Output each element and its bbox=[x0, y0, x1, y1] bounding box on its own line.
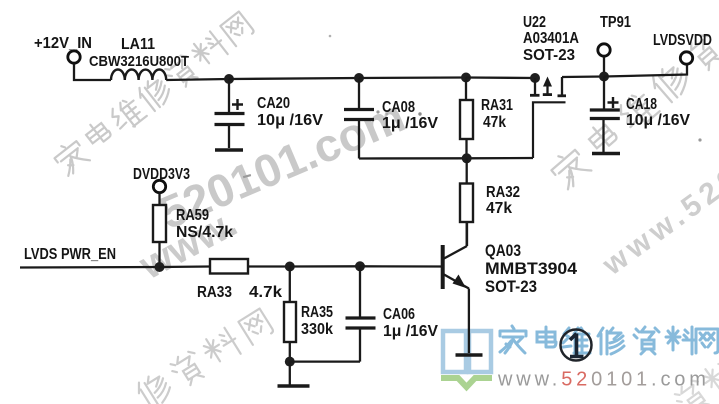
node I junction bbox=[285, 357, 295, 367]
svg-text:4.7k: 4.7k bbox=[249, 284, 282, 301]
node F junction bbox=[155, 262, 165, 272]
wire RA33 to node G bbox=[248, 265, 290, 267]
svg-text:RA35: RA35 bbox=[301, 304, 333, 321]
node B junction bbox=[354, 73, 364, 83]
ground for RA35 bbox=[278, 362, 310, 386]
node D junction bbox=[599, 72, 609, 82]
capacitor CA18 bbox=[590, 77, 691, 153]
capacitor CA20 bbox=[215, 79, 324, 148]
node DVDD3V3 terminal bbox=[133, 166, 190, 193]
svg-text:330k: 330k bbox=[301, 321, 333, 338]
ground for CA18 bbox=[592, 152, 620, 156]
scan specks bbox=[243, 35, 702, 178]
wire U22 drain to node D bbox=[562, 75, 604, 78]
svg-text:47k: 47k bbox=[483, 114, 506, 131]
svg-text:RA59: RA59 bbox=[176, 207, 209, 224]
resistor RA33 bbox=[197, 259, 282, 301]
wire node B to node C bbox=[359, 76, 466, 79]
wire QA03 emitter bbox=[468, 289, 470, 354]
svg-text:SOT-23: SOT-23 bbox=[523, 47, 575, 64]
svg-text:CBW3216U800T: CBW3216U800T bbox=[89, 53, 189, 70]
svg-text:SOT-23: SOT-23 bbox=[485, 277, 537, 296]
svg-text:RA32: RA32 bbox=[486, 184, 520, 201]
svg-text:RA33: RA33 bbox=[197, 284, 232, 301]
wire node G to node H bbox=[290, 265, 360, 268]
svg-text:LVDS PWR_EN: LVDS PWR_EN bbox=[24, 246, 116, 263]
svg-text:47k: 47k bbox=[486, 200, 512, 217]
svg-text:DVDD3V3: DVDD3V3 bbox=[133, 166, 190, 183]
svg-text:MMBT3904: MMBT3904 bbox=[485, 259, 578, 278]
testpoint TP91 bbox=[598, 14, 632, 72]
node G junction bbox=[285, 262, 295, 272]
svg-text:CA18: CA18 bbox=[626, 96, 657, 113]
wire LVDS PWR_EN to node F bbox=[20, 266, 160, 269]
svg-text:TP91: TP91 bbox=[600, 14, 631, 31]
svg-text:1μ /16V: 1μ /16V bbox=[382, 115, 439, 132]
ground for CA20 bbox=[215, 148, 243, 152]
svg-text:LVDSVDD: LVDSVDD bbox=[653, 32, 712, 49]
wire node D to LVDSVDD bbox=[604, 65, 687, 77]
svg-text:10μ /16V: 10μ /16V bbox=[626, 112, 691, 129]
capacitor CA08 bbox=[344, 78, 439, 159]
wire node A to node B bbox=[229, 78, 359, 79]
resistor RA35 bbox=[284, 267, 333, 362]
svg-text:CA20: CA20 bbox=[257, 95, 290, 112]
inductor LA11 bbox=[89, 36, 189, 80]
wire node H to Q1 base bbox=[360, 265, 441, 268]
wire node F to RA33 bbox=[160, 265, 211, 268]
svg-text:A03401A: A03401A bbox=[523, 30, 579, 47]
node E junction bbox=[462, 153, 472, 163]
svg-text:QA03: QA03 bbox=[485, 241, 521, 260]
capacitor CA06 bbox=[346, 266, 439, 361]
wire node I rail bbox=[290, 360, 360, 362]
svg-text:CA06: CA06 bbox=[383, 306, 415, 323]
svg-text:U22: U22 bbox=[523, 14, 546, 31]
node +12V_IN terminal bbox=[34, 35, 92, 63]
resistor RA59 bbox=[153, 193, 233, 267]
p-MOSFET U22 bbox=[523, 14, 579, 158]
wire node C to U1 source bbox=[466, 76, 535, 79]
svg-text:1μ /16V: 1μ /16V bbox=[383, 323, 439, 340]
svg-text:+12V_IN: +12V_IN bbox=[34, 35, 92, 52]
wire +12V_IN to inductor bbox=[74, 64, 111, 81]
svg-text:RA31: RA31 bbox=[481, 97, 513, 114]
svg-text:LA11: LA11 bbox=[121, 36, 155, 53]
svg-text:NS/4.7k: NS/4.7k bbox=[176, 224, 233, 241]
node A junction bbox=[224, 74, 234, 84]
svg-text:10μ /16V: 10μ /16V bbox=[257, 112, 324, 129]
node LVDSVDD terminal bbox=[653, 32, 712, 64]
node C junction bbox=[461, 73, 471, 83]
node H junction bbox=[355, 261, 365, 271]
resistor RA32 bbox=[460, 158, 520, 246]
ground for QA03 bbox=[456, 353, 483, 357]
transistor QA03 bbox=[443, 222, 578, 296]
node LVDS PWR_EN label bbox=[24, 246, 116, 263]
resistor RA31 bbox=[460, 78, 513, 159]
wire inductor to node A bbox=[166, 79, 229, 80]
wire mid rail bbox=[359, 157, 533, 160]
svg-text:www.520101.com: www.520101.com bbox=[497, 369, 710, 391]
